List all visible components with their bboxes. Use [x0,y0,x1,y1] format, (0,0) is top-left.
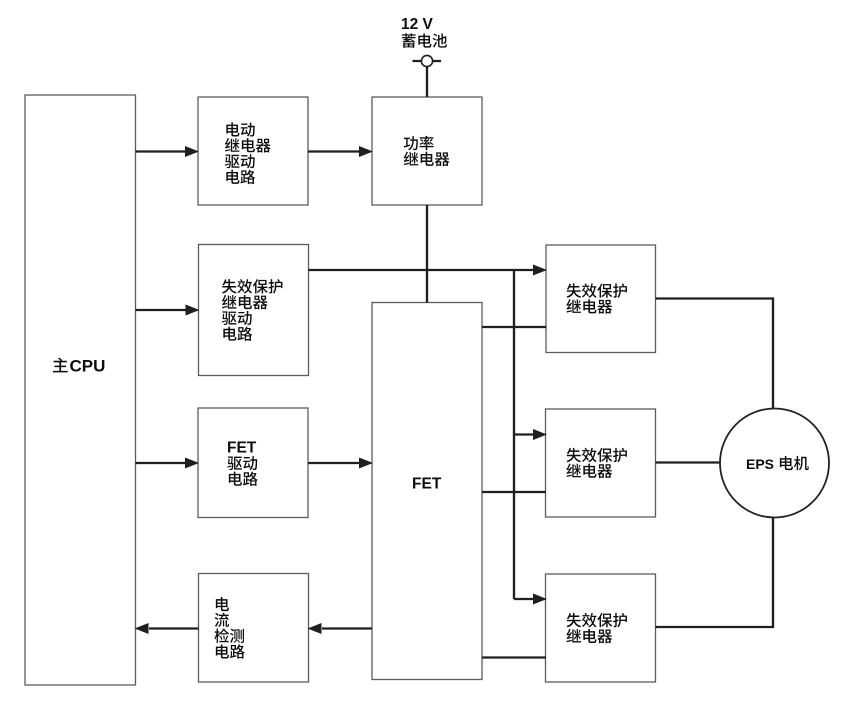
wire: power relay to FET [426,205,428,303]
block: fail-safe relay 1 (失效保护继电器) [546,245,656,353]
wire: motor relay drive to power relay (arrow) [308,146,373,157]
wire: bus to fail-safe relay 2 (arrow) [514,429,547,440]
EPS motor M1 (EPS 电机) [720,409,829,518]
svg-text:FET: FET [227,440,257,457]
wire: CPU to motor relay drive (arrow) [136,146,200,157]
wire: fail-safe relay 2 to EPS motor [656,461,721,463]
wire: FET to fail-safe relay 2 [482,491,546,493]
wire: fail-safe relay 3 to EPS motor [656,518,774,628]
wire: fail-safe relay 1 to EPS motor [656,299,774,409]
wire: current detection to CPU (arrow) [135,623,199,634]
svg-text:CPU: CPU [70,357,106,376]
battery terminal node [413,55,442,66]
block: fail-safe relay 3 (失效保护继电器) [546,574,656,682]
wire: battery to power relay [426,67,428,97]
wire: CPU to FET drive (arrow) [136,458,200,469]
wire: fail-safe drive vertical bus [513,270,515,599]
wire: CPU to fail-safe relay drive (arrow) [136,305,200,316]
svg-text:12 V: 12 V [401,16,434,33]
wire: FET to current detection (arrow) [308,623,373,634]
block: main CPU (主 CPU) [25,95,136,685]
block: fail-safe relay drive circuit (失效保护继电器驱动电路) [199,245,309,376]
wire: FET to fail-safe relay 1 [482,326,546,328]
wire: fail-safe relay drive to fail-safe relay 1 (arrow) [309,265,548,276]
wire: bus to fail-safe relay 3 (arrow) [514,594,547,605]
block: current detection circuit (电流检测电路) [199,574,309,683]
svg-text:EPS: EPS [746,456,774,472]
block: motor relay drive circuit (电动继电器驱动电路) [198,97,308,205]
block: fail-safe relay 2 (失效保护继电器) [546,409,656,517]
wire: FET drive to FET (arrow) [308,458,373,469]
wire: FET to fail-safe relay 3 [482,656,546,658]
svg-text:FET: FET [412,476,442,493]
label: 12 V battery (12 V 蓄电池) [401,16,447,48]
block: FET drive circuit (FET 驱动电路) [198,408,308,518]
block: power relay (功率继电器) [372,97,482,205]
block: FET bridge [372,303,482,680]
